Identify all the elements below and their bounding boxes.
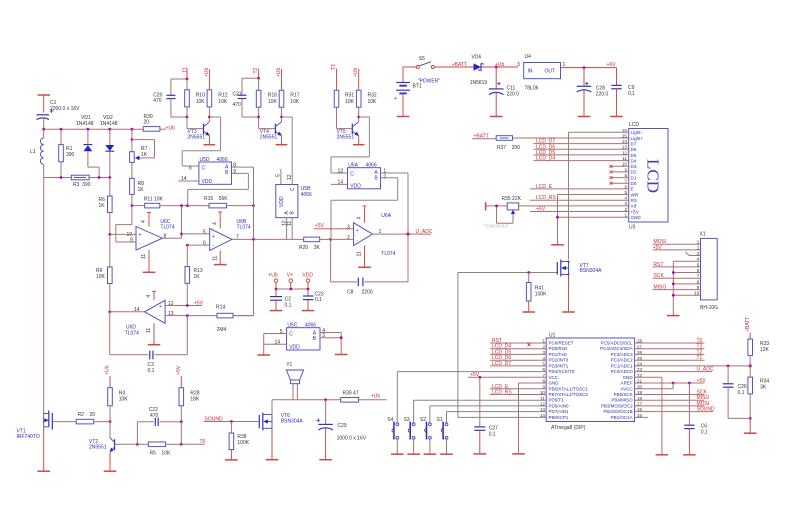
svg-text:PD6/AIN0: PD6/AIN0 [549, 403, 570, 408]
svg-text:IN: IN [528, 69, 533, 75]
wire U6A output / node U_ADC [372, 233, 431, 235]
svg-text:PB7/XTAL2/TOSC2: PB7/XTAL2/TOSC2 [549, 392, 589, 397]
svg-text:S1: S1 [437, 417, 443, 423]
svg-text:100K: 100K [535, 292, 547, 298]
node T0 (U1 pin28) [635, 338, 705, 344]
wire VT5 collector to U5A pin13 [331, 117, 369, 173]
svg-text:X1: X1 [700, 232, 706, 238]
ground U6C pin11 [143, 271, 156, 273]
svg-text:2M4: 2M4 [217, 327, 227, 333]
resistor R4 10K [108, 376, 113, 422]
node RST (X1 pin5) [653, 262, 701, 268]
svg-text:6: 6 [203, 241, 206, 247]
svg-text:8: 8 [233, 163, 236, 169]
svg-text:4: 4 [357, 217, 363, 220]
svg-text:11: 11 [357, 251, 363, 256]
wire U5C pin14 stub [264, 343, 287, 345]
svg-text:E: E [631, 187, 634, 192]
node T1 (U1 pin25) [635, 355, 705, 361]
node LCD_D5 (U1 pin3) [490, 349, 546, 355]
ground S3 [407, 453, 420, 455]
wire U5A pinB loop to U6A pin2 node [331, 178, 398, 240]
ground divider [744, 432, 757, 434]
capacitor C28 220.0 [577, 68, 592, 117]
svg-text:1K: 1K [141, 152, 148, 158]
resistor R38 100K [229, 422, 234, 460]
svg-text:2200: 2200 [362, 290, 373, 296]
svg-text:220.0: 220.0 [507, 92, 520, 98]
svg-text:0,1: 0,1 [738, 390, 745, 396]
ground VT3 emitter [204, 144, 216, 146]
speaker Y1 [286, 370, 303, 400]
svg-text:TL074: TL074 [381, 251, 395, 257]
resistor R17 10K [279, 69, 284, 117]
svg-text:VDD: VDD [202, 179, 213, 185]
resistor R16 10K [256, 78, 261, 117]
svg-text:WR: WR [631, 192, 639, 197]
button S2 [425, 422, 432, 455]
node T6 [181, 439, 205, 445]
svg-text:PD2/INT0: PD2/INT0 [549, 358, 569, 363]
svg-text:R37 200: R37 200 [497, 145, 520, 151]
resistor R1 390 [59, 129, 64, 177]
node MISO (U1 pin18) [635, 395, 710, 401]
ground C6 [683, 454, 696, 456]
svg-text:AVCC: AVCC [620, 386, 633, 391]
svg-text:PC1/ADC1: PC1/ADC1 [611, 363, 634, 368]
svg-text:4: 4 [146, 295, 152, 298]
node LCD_D5 [534, 150, 629, 156]
svg-text:U5A: U5A [348, 163, 358, 169]
wire U6B out row [232, 238, 304, 240]
wire VT4 collector to U5B pin12 [282, 117, 293, 185]
svg-text:PC4/ADC4/SDA: PC4/ADC4/SDA [600, 346, 633, 351]
node MOSI (U1 pin17) [635, 401, 710, 407]
svg-text:1K: 1K [138, 187, 145, 193]
transistor VT7 BSN304A [557, 260, 569, 313]
wire bus2 [44, 177, 72, 179]
svg-text:PD5/T1: PD5/T1 [549, 398, 565, 403]
transistor VT1 IRF740TO [44, 411, 76, 472]
svg-text:PB4/MISO: PB4/MISO [611, 398, 633, 403]
svg-text:R28: R28 [190, 390, 199, 396]
wire U6C output to node [163, 206, 182, 239]
transistor VT4 2N5551 [259, 117, 282, 145]
button S1 [441, 422, 448, 455]
svg-text:10K: 10K [268, 99, 278, 105]
ground C11 [490, 116, 503, 118]
resistor R15 56K [188, 203, 254, 208]
svg-text:R11 10K: R11 10K [144, 197, 164, 203]
resistor R11 10K [132, 203, 188, 208]
svg-text:ATmega8 (DIP): ATmega8 (DIP) [551, 425, 586, 431]
svg-text:0,1: 0,1 [489, 432, 496, 438]
svg-text:BSN304A: BSN304A [281, 418, 304, 424]
wire U5C pin5 to ground [264, 334, 287, 356]
diode VD6 1N5819 [474, 63, 484, 70]
svg-text:+: + [356, 228, 359, 234]
capacitor C2 0.1 [270, 289, 282, 311]
svg-text:+: + [159, 304, 162, 310]
node LCD_RS (U1 pin10) [490, 390, 546, 396]
resistor R39 47 [341, 398, 387, 403]
wire U1 pin6 to S4 [397, 372, 546, 423]
transistor VT2 2N5551 (faces left) [110, 422, 138, 472]
svg-text:TL074: TL074 [237, 225, 251, 231]
svg-text:R10: R10 [196, 93, 205, 99]
svg-text:R14: R14 [216, 304, 225, 310]
ground C9 [610, 116, 623, 118]
svg-text:+5V: +5V [631, 209, 640, 214]
svg-text:Y1: Y1 [286, 362, 292, 368]
wire X1 pin4/6/8/10 to ground [673, 261, 700, 315]
svg-text:0,1: 0,1 [148, 368, 155, 374]
svg-text:D7: D7 [631, 142, 637, 147]
svg-text:R32: R32 [368, 93, 377, 99]
ground U6B pin11 [214, 264, 227, 266]
wire U6C +input [110, 233, 136, 235]
resistor R14 2M4 [217, 313, 254, 318]
capacitor C11 220.0 [489, 67, 504, 117]
svg-text:U6A: U6A [381, 213, 391, 219]
svg-text:13: 13 [338, 169, 344, 175]
node V+ test point [287, 273, 293, 289]
wire LCD pin16 to VT7 drain [569, 132, 629, 259]
wire U6B out down to U6D pin13 row [233, 239, 254, 315]
wire U1 pin22 GND [635, 377, 662, 455]
wire U6D output [110, 311, 145, 313]
ground R41 [522, 311, 535, 313]
ground LCD [551, 244, 564, 246]
svg-text:C8: C8 [347, 290, 354, 296]
wire R8/R11 node to U6C pin9 [116, 206, 136, 242]
ground BT1 [397, 116, 410, 118]
svg-text:+: + [212, 234, 215, 240]
capacitor C23 0.1 [303, 289, 314, 311]
wire U4 out to +6V [561, 67, 617, 69]
svg-text:0,1: 0,1 [701, 430, 708, 436]
capacitor C22 470 [137, 418, 181, 445]
svg-text:D4: D4 [631, 158, 637, 163]
svg-text:RS: RS [631, 198, 637, 203]
svg-text:PB1/OC1A: PB1/OC1A [611, 415, 633, 420]
svg-text:GND: GND [631, 215, 642, 220]
LCD pin numbers [622, 128, 628, 218]
node +5V (U1 pin7 VCC) [468, 372, 546, 378]
svg-text:TL074: TL074 [160, 225, 174, 231]
svg-text:VDD: VDD [279, 196, 285, 207]
wire U5D pin8 to node [232, 167, 254, 206]
svg-text:470: 470 [150, 413, 159, 419]
inductor L1 [40, 129, 43, 177]
wire VT6 drain row [272, 399, 341, 401]
wire U5C A/B to ground [320, 333, 341, 355]
svg-text:10K: 10K [345, 99, 355, 105]
svg-text:4066: 4066 [301, 192, 312, 198]
svg-text:GND: GND [623, 375, 634, 380]
svg-text:R5 10K: R5 10K [150, 451, 172, 457]
svg-text:0,1: 0,1 [285, 303, 292, 309]
svg-text:PC0/ADC0: PC0/ADC0 [611, 369, 634, 374]
node VDD test point [302, 273, 313, 289]
ground U1 pin8 [512, 453, 525, 455]
resistor R30 20 [143, 127, 160, 132]
svg-text:IRF740TO: IRF740TO [17, 434, 40, 440]
svg-text:12K: 12K [760, 347, 770, 353]
node RST (U1 pin1) [490, 338, 546, 346]
node MOSI (X1 pin1) [653, 239, 701, 245]
ground S1 [440, 453, 453, 455]
svg-text:+BATT: +BATT [745, 317, 751, 332]
capacitor C27 0.1 [474, 377, 485, 454]
transistor VT3 2N5551 [187, 117, 210, 145]
wire U6D pin13 row [165, 315, 217, 317]
svg-text:L1: L1 [30, 149, 36, 155]
svg-text:R3 390: R3 390 [73, 182, 91, 188]
svg-text:+Ub: +Ub [166, 126, 176, 132]
svg-text:R31: R31 [345, 93, 354, 99]
resistor R20 3K [304, 237, 331, 242]
svg-text:PD3/INT1: PD3/INT1 [549, 363, 569, 368]
svg-text:PC3/ADC3: PC3/ADC3 [611, 352, 634, 357]
svg-text:R12: R12 [218, 93, 227, 99]
resistor R34 3K [748, 366, 753, 419]
svg-text:S5: S5 [419, 56, 425, 62]
wire R28/C22 node down to R5 node [180, 422, 182, 445]
node T3 (U1 pin27) [635, 344, 705, 350]
svg-text:1K: 1K [99, 203, 106, 209]
svg-text:2200.0 x 16V: 2200.0 x 16V [50, 106, 80, 112]
node U_ADC (U1 pin23) [635, 367, 714, 373]
resistor R33 12K [748, 333, 753, 366]
svg-text:1N4148: 1N4148 [76, 121, 94, 127]
node LCD_E [530, 184, 629, 190]
svg-text:D5: D5 [631, 153, 637, 158]
svg-text:LCD: LCD [629, 122, 639, 128]
svg-text:3: 3 [347, 225, 350, 231]
wire U5A pin14 stub [331, 183, 348, 185]
node SCK (U1 pin19) [635, 389, 708, 395]
svg-text:3K: 3K [760, 385, 767, 391]
svg-text:U_ADC: U_ADC [416, 229, 433, 235]
svg-text:11: 11 [141, 254, 147, 259]
svg-text:1000.0 x 16V: 1000.0 x 16V [337, 436, 367, 442]
svg-text:D6: D6 [631, 147, 637, 152]
svg-text:2N5551: 2N5551 [188, 134, 206, 140]
svg-text:BSN304A: BSN304A [580, 268, 603, 274]
wire U6A pin2 [331, 238, 354, 240]
svg-text:2: 2 [347, 235, 350, 241]
wire U1 pin12 to S2 [430, 406, 546, 423]
wire U5D pin9 loop [188, 173, 249, 205]
svg-text:2N5551: 2N5551 [337, 134, 355, 140]
node LCD_D7 (U1 pin5) [490, 361, 546, 367]
ground S2 [424, 453, 437, 455]
node LCD_D4 (U1 pin2) [490, 344, 546, 350]
svg-text:LCD: LCD [644, 159, 663, 193]
node SOUND (U1 pin16) [635, 407, 715, 413]
resistor R5 10K [137, 442, 181, 447]
svg-text:10K: 10K [96, 274, 106, 280]
svg-text:+Ub: +Ub [204, 67, 210, 77]
node SCK (X1 pin7) [653, 273, 701, 279]
op-amp U6C TL074 [136, 213, 163, 273]
op-amp U6A TL074 [354, 206, 373, 267]
capacitor C21 470 [238, 95, 259, 117]
svg-text:10K: 10K [196, 99, 206, 105]
wire U1 pin13 to S1 [447, 412, 547, 423]
svg-text:BH-10G: BH-10G [700, 305, 718, 311]
wire ATmega pin14 to VT7 gate [458, 273, 557, 418]
wire U1 pin15 stub [635, 416, 648, 418]
svg-text:+Ub: +Ub [268, 273, 278, 279]
wire U1 pin11 to S3 [414, 400, 547, 423]
svg-text:C: C [289, 332, 293, 338]
battery BT1 [394, 67, 410, 117]
wire test point rail [276, 288, 308, 290]
wire VT3 collector to U5D pin6 [182, 117, 220, 166]
svg-text:+5V: +5V [194, 300, 204, 306]
resistor R31 10K [334, 69, 352, 129]
ground U6D pin11 [148, 344, 161, 346]
svg-text:4: 4 [212, 222, 218, 225]
svg-text:0,1: 0,1 [315, 297, 322, 303]
ground C27 [474, 453, 487, 455]
node +Ub test point [268, 273, 278, 289]
analog switch U5C 4066 [287, 328, 320, 350]
ground C23 [302, 310, 315, 312]
capacitor C9 0.1 [611, 68, 621, 117]
svg-text:TL074: TL074 [125, 331, 139, 337]
svg-text:10K: 10K [119, 397, 129, 403]
ground U6A pin11 [358, 266, 371, 268]
node LCD_D7 [534, 139, 629, 145]
svg-text:+Ub: +Ub [371, 394, 381, 400]
node +5V (U1 pin21 AREF) [635, 378, 707, 384]
wire node to U6B out [253, 206, 255, 240]
svg-text:+: + [394, 96, 397, 102]
wire U6B pin6 [187, 244, 209, 246]
svg-text:Light+: Light+ [631, 136, 644, 141]
resistor R9 10K [108, 234, 113, 311]
svg-text:4066: 4066 [305, 323, 316, 329]
node MISO (X1 pin9) [653, 285, 701, 291]
svg-text:VDD: VDD [289, 345, 300, 351]
wire U5D pin14 stub [178, 180, 199, 182]
svg-text:U5C: U5C [287, 323, 297, 329]
ground VT7 source [562, 311, 575, 313]
resistor R41 100K [526, 273, 531, 313]
capacitor C3 0.1 (U6D feedback) [110, 312, 188, 360]
wire LCD WR+GND to ground [558, 195, 629, 245]
svg-text:V+: V+ [287, 273, 293, 279]
svg-text:1: 1 [563, 62, 566, 68]
svg-text:PB3/MOSI/OC2: PB3/MOSI/OC2 [601, 403, 633, 408]
resistor R8 1K [130, 178, 135, 205]
ground C2 [270, 310, 283, 312]
svg-text:C: C [290, 187, 296, 191]
svg-text:U1: U1 [549, 332, 556, 338]
wire U5A pinA to U_ADC node [381, 173, 409, 234]
diode VD1 1N4148 [84, 129, 100, 177]
svg-text:R35 22K: R35 22K [502, 196, 522, 202]
ground VT1 source [37, 470, 50, 472]
svg-text:VD6: VD6 [472, 55, 482, 61]
wire U6B pin5 [182, 233, 210, 235]
ground (top of C1) [38, 95, 51, 113]
svg-text:100K: 100K [237, 440, 249, 446]
node +5V (LCD) [530, 206, 629, 212]
svg-text:R2 20: R2 20 [78, 412, 96, 418]
capacitor C6 0.1 [684, 383, 694, 455]
node LCD_E (U1 pin9) [490, 384, 546, 390]
resistor R6 1K [108, 178, 113, 235]
ground U1 pin22 [656, 454, 669, 456]
svg-text:R17: R17 [290, 93, 299, 99]
ground C29 [319, 459, 332, 461]
capacitor C1 2200.0x16V [37, 109, 54, 129]
wire U1 pin20 AVCC [635, 383, 674, 389]
wire X1 pin3 stub [686, 252, 701, 256]
ground VT4 emitter [276, 144, 288, 146]
svg-text:+5V: +5V [176, 365, 182, 375]
svg-text:+5V: +5V [315, 223, 325, 229]
svg-text:VDD: VDD [302, 273, 313, 279]
wire U1 pin24 to divider [635, 365, 751, 367]
wire T1 stub [171, 69, 187, 96]
svg-text:2N5551: 2N5551 [89, 444, 107, 450]
ground X1 [667, 315, 680, 317]
svg-text:12: 12 [287, 174, 293, 180]
svg-text:1N4148: 1N4148 [100, 121, 118, 127]
ground C28 [578, 116, 591, 118]
svg-text:VDD: VDD [350, 184, 361, 190]
resistor R2 20 [76, 419, 110, 424]
capacitor C20 470 [166, 95, 187, 117]
svg-text:11: 11 [212, 256, 218, 261]
resistor R37 200 [472, 136, 629, 141]
svg-text:PD1/TxD: PD1/TxD [549, 352, 568, 357]
svg-text:VCC: VCC [549, 375, 559, 380]
svg-text:PD0/RxD: PD0/RxD [549, 346, 569, 351]
ground S4 [391, 453, 404, 455]
svg-text:4: 4 [141, 220, 147, 223]
svg-text:4066: 4066 [366, 163, 377, 169]
svg-text:3: 3 [322, 333, 325, 339]
switch S5 "POWER" [403, 62, 518, 69]
capacitor C26 0.1 [723, 366, 750, 433]
svg-text:C21: C21 [233, 91, 242, 97]
wire bus1 [44, 128, 144, 130]
trimmer R35 22K [486, 202, 629, 223]
LCD pin names [631, 130, 644, 220]
svg-text:R15 56K: R15 56K [204, 196, 228, 202]
svg-text:AREF: AREF [621, 381, 633, 386]
svg-text:10K: 10K [290, 99, 300, 105]
svg-text:Vd: Vd [631, 204, 637, 209]
svg-text:1K: 1K [194, 274, 201, 280]
ground VT5 emitter [353, 144, 365, 146]
svg-text:10K: 10K [218, 99, 228, 105]
button S3 [408, 422, 415, 455]
node LCD_D6 (U1 pin4) [490, 355, 546, 361]
svg-text:PB2/SS/OC1B: PB2/SS/OC1B [603, 409, 632, 414]
svg-text:S3: S3 [404, 417, 410, 423]
svg-text:+6V: +6V [607, 62, 617, 68]
svg-text:U4: U4 [525, 54, 532, 60]
svg-text:PC6/RESET: PC6/RESET [549, 341, 574, 346]
ground VT6 source [266, 459, 279, 461]
